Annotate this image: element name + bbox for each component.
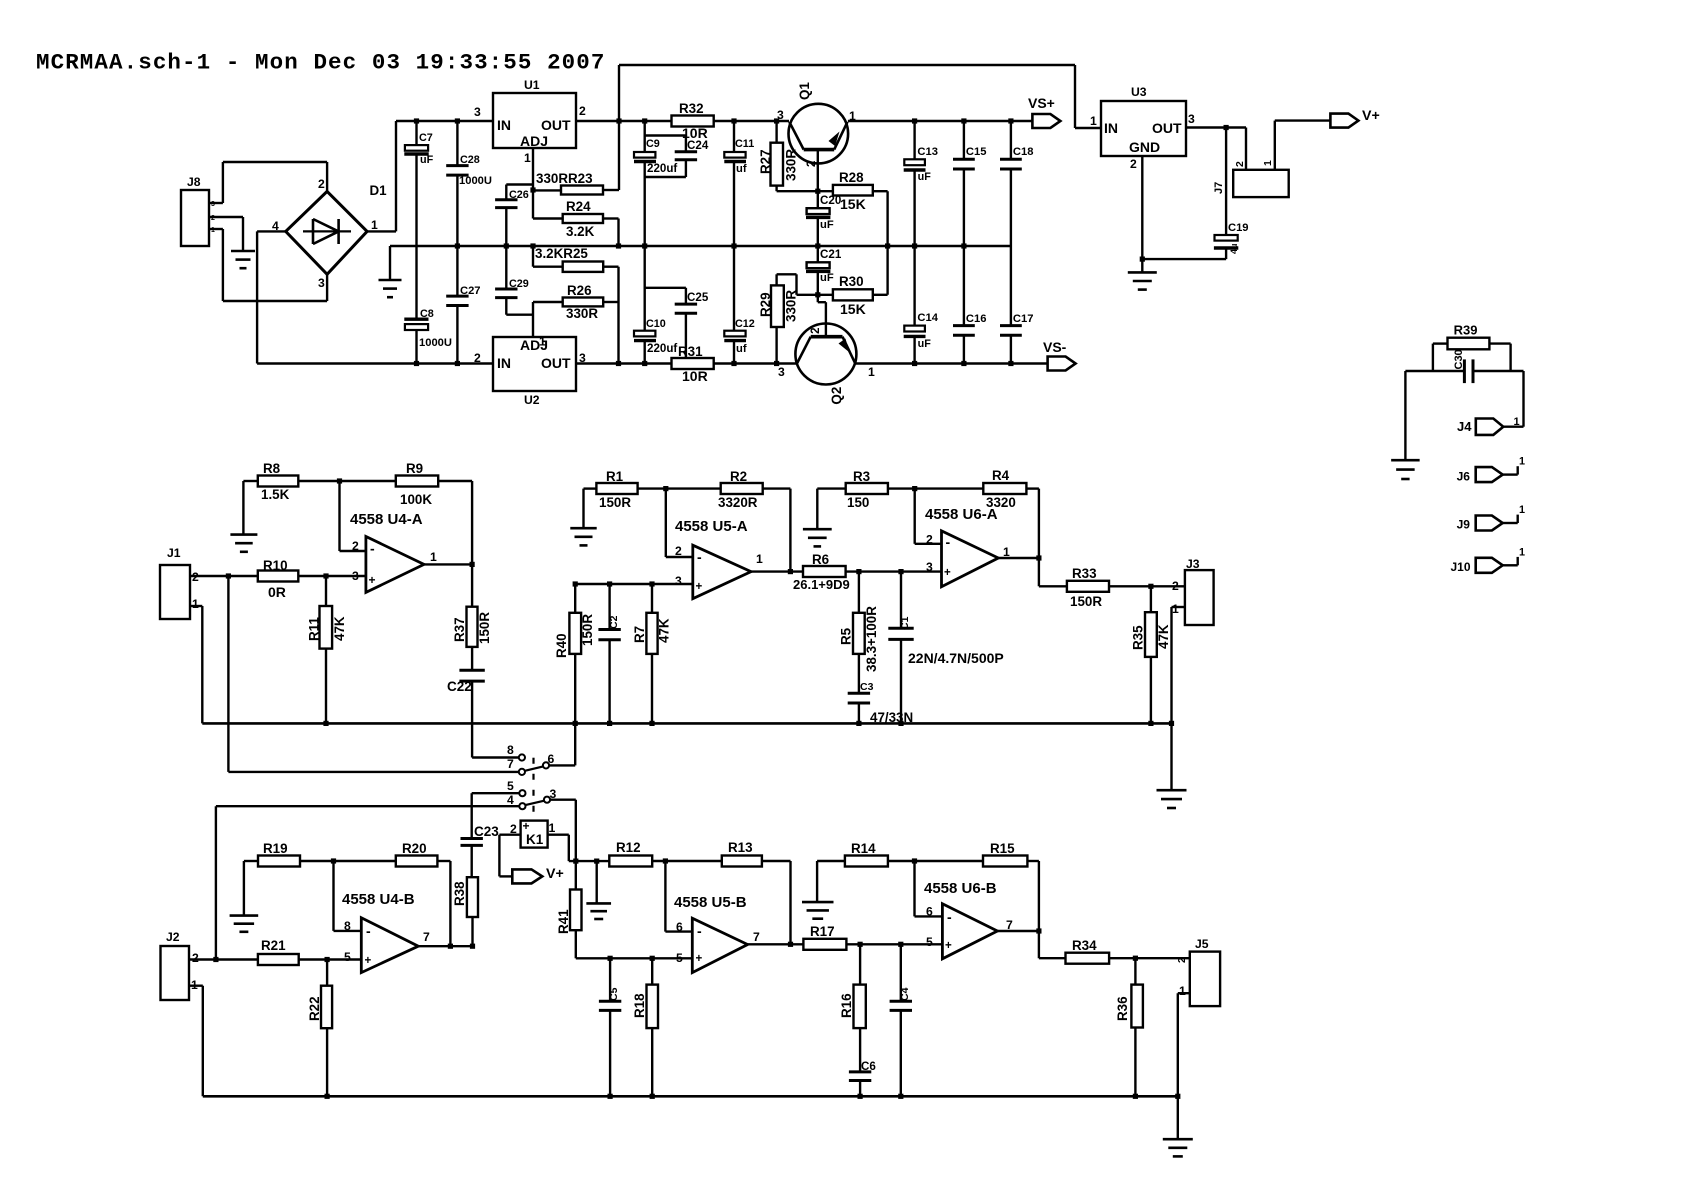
svg-text:C15: C15 xyxy=(966,146,987,158)
svg-text:2: 2 xyxy=(926,533,933,547)
svg-text:4u: 4u xyxy=(1229,243,1239,254)
svg-text:5: 5 xyxy=(507,779,514,793)
svg-text:47K: 47K xyxy=(332,616,347,641)
svg-text:J8: J8 xyxy=(187,175,201,189)
svg-text:5: 5 xyxy=(926,935,933,949)
svg-text:C12: C12 xyxy=(735,318,755,330)
svg-text:2: 2 xyxy=(211,215,215,222)
svg-text:C7: C7 xyxy=(419,132,433,144)
svg-text:R35: R35 xyxy=(1131,625,1146,650)
svg-text:3: 3 xyxy=(1188,112,1195,126)
svg-text:1: 1 xyxy=(1172,602,1179,616)
svg-text:3: 3 xyxy=(550,787,557,801)
svg-text:38.3+100R: 38.3+100R xyxy=(864,606,879,672)
svg-text:330R: 330R xyxy=(784,290,799,322)
svg-text:IN: IN xyxy=(497,117,511,133)
svg-text:R33: R33 xyxy=(1072,566,1097,581)
svg-text:R38: R38 xyxy=(452,881,467,906)
svg-text:uF: uF xyxy=(918,338,932,350)
svg-text:uF: uF xyxy=(820,272,834,284)
svg-text:4558 U4-A: 4558 U4-A xyxy=(350,511,423,528)
svg-text:R11: R11 xyxy=(307,617,322,641)
svg-text:C20: C20 xyxy=(820,194,841,207)
svg-text:R12: R12 xyxy=(616,840,641,855)
svg-text:1: 1 xyxy=(549,821,556,835)
svg-text:J3: J3 xyxy=(1186,557,1200,571)
svg-text:C21: C21 xyxy=(820,248,842,261)
svg-text:4558 U6-A: 4558 U6-A xyxy=(925,506,998,523)
svg-text:C2: C2 xyxy=(608,615,620,629)
svg-text:C14: C14 xyxy=(917,312,938,324)
svg-text:1: 1 xyxy=(371,218,378,232)
svg-text:OUT: OUT xyxy=(1152,120,1182,136)
svg-text:R37: R37 xyxy=(452,617,467,642)
svg-text:150R: 150R xyxy=(580,614,595,646)
svg-text:uF: uF xyxy=(820,219,834,231)
svg-text:C13: C13 xyxy=(917,146,938,158)
svg-text:-: - xyxy=(946,534,951,550)
svg-text:C19: C19 xyxy=(1228,222,1249,234)
svg-text:+: + xyxy=(944,566,951,579)
svg-text:OUT: OUT xyxy=(541,355,571,371)
svg-text:MCRMAA.sch-1 - Mon Dec 03 19:3: MCRMAA.sch-1 - Mon Dec 03 19:33:55 2007 xyxy=(36,50,606,76)
svg-text:C5: C5 xyxy=(608,987,620,1001)
svg-text:U1: U1 xyxy=(524,78,540,92)
svg-text:5: 5 xyxy=(676,951,683,965)
svg-text:3: 3 xyxy=(211,201,215,208)
svg-text:6: 6 xyxy=(926,905,933,919)
svg-text:R17: R17 xyxy=(810,924,835,939)
svg-text:150R: 150R xyxy=(599,495,631,510)
svg-text:1: 1 xyxy=(1090,114,1097,128)
svg-text:2: 2 xyxy=(1177,957,1188,963)
svg-text:C25: C25 xyxy=(687,291,709,304)
svg-text:10R: 10R xyxy=(682,368,708,384)
svg-text:2: 2 xyxy=(474,351,481,365)
svg-text:C23: C23 xyxy=(474,824,499,839)
svg-text:C6: C6 xyxy=(861,1060,876,1073)
svg-text:+: + xyxy=(696,952,703,965)
svg-text:3: 3 xyxy=(675,574,682,588)
svg-text:V+: V+ xyxy=(1362,108,1380,124)
svg-text:C4: C4 xyxy=(899,987,911,1001)
svg-text:C11: C11 xyxy=(735,138,754,150)
svg-text:R26: R26 xyxy=(567,283,592,298)
svg-text:Q1: Q1 xyxy=(797,82,812,100)
svg-text:R30: R30 xyxy=(839,274,864,289)
svg-text:2: 2 xyxy=(192,951,199,965)
svg-text:IN: IN xyxy=(497,355,511,371)
svg-text:D1: D1 xyxy=(370,183,388,198)
svg-text:220uf: 220uf xyxy=(647,342,677,355)
svg-text:R18: R18 xyxy=(632,993,647,1018)
svg-text:330R: 330R xyxy=(566,306,598,321)
svg-text:R4: R4 xyxy=(992,468,1010,483)
svg-text:R10: R10 xyxy=(263,558,288,573)
svg-text:4558 U5-B: 4558 U5-B xyxy=(674,894,747,911)
svg-text:1: 1 xyxy=(191,978,198,992)
svg-text:1: 1 xyxy=(1519,504,1525,516)
svg-text:1: 1 xyxy=(1519,546,1525,558)
svg-text:R3: R3 xyxy=(853,469,870,484)
svg-text:uf: uf xyxy=(736,343,747,355)
svg-text:J10: J10 xyxy=(1451,560,1471,574)
svg-text:2: 2 xyxy=(806,161,818,167)
svg-text:J5: J5 xyxy=(1195,937,1209,951)
svg-text:3320R: 3320R xyxy=(718,495,758,510)
svg-text:+: + xyxy=(369,573,376,587)
svg-text:47K: 47K xyxy=(1156,624,1171,649)
svg-text:U2: U2 xyxy=(524,393,540,407)
svg-text:IN: IN xyxy=(1104,120,1118,136)
svg-text:R6: R6 xyxy=(812,552,829,567)
svg-text:R31: R31 xyxy=(678,344,703,359)
svg-text:7: 7 xyxy=(423,930,430,944)
svg-text:22N/4.7N/500P: 22N/4.7N/500P xyxy=(908,650,1004,666)
svg-text:3: 3 xyxy=(926,560,933,574)
svg-text:2: 2 xyxy=(352,539,359,553)
svg-text:3: 3 xyxy=(777,108,784,122)
svg-text:2: 2 xyxy=(192,570,199,584)
svg-text:+: + xyxy=(365,954,372,967)
svg-text:1: 1 xyxy=(211,227,215,234)
svg-text:J7: J7 xyxy=(1213,182,1225,194)
svg-text:R29: R29 xyxy=(758,292,773,317)
svg-text:2: 2 xyxy=(675,544,682,558)
svg-text:K1: K1 xyxy=(526,832,544,847)
svg-text:R32: R32 xyxy=(679,101,704,116)
svg-text:2: 2 xyxy=(810,327,822,333)
svg-text:3: 3 xyxy=(474,105,481,119)
svg-text:2: 2 xyxy=(1130,157,1137,171)
svg-text:1: 1 xyxy=(1003,545,1010,559)
svg-text:V+: V+ xyxy=(546,866,564,882)
svg-text:8: 8 xyxy=(507,743,514,757)
svg-text:U3: U3 xyxy=(1131,85,1147,99)
svg-text:R13: R13 xyxy=(728,840,753,855)
svg-text:47/33N: 47/33N xyxy=(870,710,913,725)
svg-text:VS-: VS- xyxy=(1043,339,1067,355)
svg-text:uf: uf xyxy=(736,163,747,175)
svg-text:2: 2 xyxy=(579,104,586,118)
svg-text:5: 5 xyxy=(344,950,351,964)
svg-text:C30: C30 xyxy=(1453,349,1465,369)
svg-text:VS+: VS+ xyxy=(1028,95,1055,111)
svg-text:Q2: Q2 xyxy=(829,387,844,405)
svg-text:-: - xyxy=(947,909,952,925)
svg-text:3: 3 xyxy=(579,351,586,365)
svg-text:-: - xyxy=(697,549,702,565)
svg-text:150: 150 xyxy=(847,495,869,510)
svg-text:R27: R27 xyxy=(758,149,773,174)
svg-text:R21: R21 xyxy=(261,938,286,953)
svg-text:R24: R24 xyxy=(566,199,591,214)
svg-text:R15: R15 xyxy=(990,841,1015,856)
svg-text:1: 1 xyxy=(868,365,875,379)
svg-text:7: 7 xyxy=(1006,918,1013,932)
svg-text:1: 1 xyxy=(1262,160,1274,166)
svg-text:220uf: 220uf xyxy=(647,162,677,175)
svg-text:150R: 150R xyxy=(1070,594,1102,609)
svg-text:3.2KR25: 3.2KR25 xyxy=(535,246,588,261)
svg-text:3.2K: 3.2K xyxy=(566,224,595,239)
svg-text:C1: C1 xyxy=(899,616,911,630)
svg-text:2: 2 xyxy=(510,822,517,836)
svg-text:4: 4 xyxy=(272,219,279,233)
svg-text:J6: J6 xyxy=(1457,469,1471,483)
svg-text:150R: 150R xyxy=(477,612,492,644)
svg-text:R41: R41 xyxy=(556,909,571,934)
svg-text:R34: R34 xyxy=(1072,938,1097,953)
svg-text:8: 8 xyxy=(344,919,351,933)
svg-text:4558 U6-B: 4558 U6-B xyxy=(924,880,997,897)
svg-text:6: 6 xyxy=(548,752,555,766)
svg-text:C26: C26 xyxy=(509,189,529,201)
svg-text:R5: R5 xyxy=(839,627,854,645)
svg-text:1: 1 xyxy=(539,335,546,349)
svg-text:15K: 15K xyxy=(840,196,866,212)
svg-text:J9: J9 xyxy=(1457,518,1471,532)
svg-text:R36: R36 xyxy=(1115,996,1130,1021)
svg-text:100K: 100K xyxy=(400,492,432,507)
svg-text:uF: uF xyxy=(918,171,932,183)
svg-text:1: 1 xyxy=(1179,984,1186,998)
svg-text:R40: R40 xyxy=(554,633,569,658)
svg-text:2: 2 xyxy=(1234,161,1246,167)
svg-text:C16: C16 xyxy=(966,313,987,325)
svg-text:1: 1 xyxy=(849,109,856,123)
svg-text:R2: R2 xyxy=(730,469,747,484)
svg-text:J2: J2 xyxy=(166,930,180,944)
svg-text:1000U: 1000U xyxy=(459,175,492,187)
svg-text:3: 3 xyxy=(778,365,785,379)
svg-text:R39: R39 xyxy=(1454,323,1478,338)
svg-text:-: - xyxy=(366,923,371,939)
svg-text:+: + xyxy=(696,580,703,593)
svg-text:47K: 47K xyxy=(657,618,672,643)
svg-text:ADJ: ADJ xyxy=(520,133,548,149)
svg-text:3: 3 xyxy=(352,569,359,583)
svg-text:6: 6 xyxy=(676,920,683,934)
svg-text:R28: R28 xyxy=(839,170,864,185)
svg-text:4558 U5-A: 4558 U5-A xyxy=(675,518,748,535)
svg-text:-: - xyxy=(370,541,375,557)
svg-text:330R: 330R xyxy=(784,149,799,181)
svg-text:R16: R16 xyxy=(839,993,854,1018)
svg-text:4558 U4-B: 4558 U4-B xyxy=(342,891,415,908)
svg-text:C17: C17 xyxy=(1013,313,1034,325)
svg-text:J4: J4 xyxy=(1457,419,1472,434)
svg-text:330RR23: 330RR23 xyxy=(536,171,593,186)
svg-text:+: + xyxy=(945,939,952,952)
svg-text:2: 2 xyxy=(1172,579,1179,593)
svg-text:7: 7 xyxy=(753,930,760,944)
svg-text:C27: C27 xyxy=(460,285,481,297)
svg-text:1: 1 xyxy=(1514,416,1520,428)
svg-text:1: 1 xyxy=(1519,456,1525,468)
svg-text:+: + xyxy=(523,819,530,833)
svg-text:26.1+9D9: 26.1+9D9 xyxy=(793,577,850,592)
svg-text:R14: R14 xyxy=(851,841,876,856)
svg-text:C24: C24 xyxy=(687,139,709,152)
svg-text:R7: R7 xyxy=(632,626,647,643)
svg-text:2: 2 xyxy=(318,177,325,191)
svg-text:R1: R1 xyxy=(606,469,624,484)
svg-text:J1: J1 xyxy=(167,546,181,560)
svg-text:C3: C3 xyxy=(860,681,874,693)
svg-text:C9: C9 xyxy=(646,138,660,150)
svg-text:3: 3 xyxy=(318,276,325,290)
svg-text:1.5K: 1.5K xyxy=(261,487,290,502)
svg-text:0R: 0R xyxy=(268,584,286,600)
svg-text:C8: C8 xyxy=(420,308,434,320)
svg-text:15K: 15K xyxy=(840,301,866,317)
svg-text:R20: R20 xyxy=(402,841,427,856)
svg-text:R22: R22 xyxy=(307,996,322,1021)
svg-text:1: 1 xyxy=(524,151,531,165)
svg-text:GND: GND xyxy=(1129,139,1160,155)
svg-text:C28: C28 xyxy=(460,154,480,166)
svg-text:R19: R19 xyxy=(263,841,288,856)
svg-text:R9: R9 xyxy=(406,461,423,476)
svg-text:1: 1 xyxy=(192,597,199,611)
svg-text:C29: C29 xyxy=(509,278,529,290)
svg-text:uF: uF xyxy=(420,154,434,166)
svg-text:7: 7 xyxy=(507,757,514,771)
svg-text:OUT: OUT xyxy=(541,117,571,133)
svg-text:-: - xyxy=(697,923,702,939)
svg-text:1: 1 xyxy=(756,552,763,566)
svg-text:C10: C10 xyxy=(646,318,666,330)
svg-text:1: 1 xyxy=(430,550,437,564)
svg-text:C22: C22 xyxy=(447,679,472,694)
svg-text:C18: C18 xyxy=(1013,146,1034,158)
svg-text:1000U: 1000U xyxy=(419,337,452,349)
svg-text:R8: R8 xyxy=(263,461,281,476)
svg-text:4: 4 xyxy=(507,793,514,807)
